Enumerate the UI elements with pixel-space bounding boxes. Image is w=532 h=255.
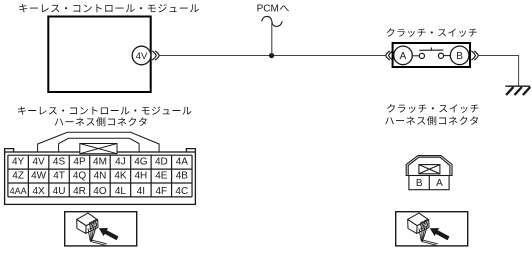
- ground: [505, 86, 530, 95]
- svg-text:4N: 4N: [94, 171, 107, 182]
- svg-text:4D: 4D: [155, 156, 168, 167]
- junction node: [269, 53, 274, 58]
- svg-text:4J: 4J: [115, 156, 126, 167]
- male connector chevrons at 4V: [152, 51, 159, 60]
- svg-text:4T: 4T: [53, 171, 65, 182]
- keyless module connector body: [5, 149, 196, 205]
- svg-text:4R: 4R: [73, 186, 86, 197]
- terminal A: [394, 46, 413, 65]
- svg-text:4W: 4W: [31, 171, 47, 182]
- svg-text:B: B: [416, 178, 423, 189]
- PCMへ label: [257, 4, 289, 15]
- clutch switch harness connector label line 2: [385, 116, 478, 125]
- svg-text:4U: 4U: [53, 186, 66, 197]
- wire junction to PCM: [271, 23, 273, 56]
- svg-text:4K: 4K: [114, 171, 127, 182]
- svg-text:4I: 4I: [137, 186, 145, 197]
- svg-text:4G: 4G: [134, 156, 148, 167]
- svg-text:4P: 4P: [73, 156, 86, 167]
- svg-text:4A: 4A: [176, 156, 189, 167]
- svg-text:4H: 4H: [134, 171, 147, 182]
- svg-text:4Z: 4Z: [12, 171, 24, 182]
- wire 4V to clutch switch: [159, 55, 386, 57]
- keyless module harness connector label line 1: [18, 106, 191, 114]
- clutch switch box: [393, 43, 470, 67]
- svg-text:B: B: [456, 51, 463, 62]
- svg-text:4Y: 4Y: [12, 156, 25, 167]
- keyless control module label: [19, 4, 199, 12]
- PCM off-page symbol: [262, 16, 283, 26]
- switch blade: [419, 47, 443, 50]
- clutch connector latch x-box: [419, 165, 440, 174]
- keyless control module box: [48, 17, 150, 93]
- clutch switch connector body: [406, 156, 452, 190]
- terminal 4V: [132, 46, 151, 65]
- svg-text:4X: 4X: [32, 186, 45, 197]
- svg-text:4S: 4S: [53, 156, 66, 167]
- keyless module harness connector label line 2: [55, 117, 147, 126]
- switch contacts: [419, 53, 443, 58]
- svg-text:A: A: [400, 51, 407, 62]
- female connector chevrons at clutch switch input: [386, 51, 393, 60]
- svg-text:4L: 4L: [115, 186, 127, 197]
- svg-text:4M: 4M: [93, 156, 107, 167]
- svg-text:4AA: 4AA: [10, 186, 27, 196]
- pin labels row 2: [12, 171, 188, 182]
- svg-text:4V: 4V: [136, 51, 148, 62]
- keyless connector view icon: [65, 212, 137, 246]
- pin labels row 1: [12, 156, 188, 167]
- svg-text:4B: 4B: [176, 171, 189, 182]
- svg-text:A: A: [436, 178, 443, 189]
- male connector chevrons at clutch switch output: [471, 51, 478, 60]
- terminal B: [450, 46, 469, 65]
- wire clutch switch to ground: [479, 56, 519, 86]
- svg-text:4F: 4F: [156, 186, 168, 197]
- pin labels row 3: [10, 186, 189, 197]
- svg-text:4O: 4O: [93, 186, 107, 197]
- svg-text:4V: 4V: [32, 156, 45, 167]
- clutch switch label: [387, 28, 477, 37]
- svg-text:4Q: 4Q: [73, 171, 87, 182]
- connector latch: [38, 132, 160, 153]
- svg-text:4C: 4C: [175, 186, 188, 197]
- svg-text:PCM: PCM: [257, 4, 279, 15]
- switch stub wires: [412, 55, 450, 57]
- svg-text:4E: 4E: [155, 171, 168, 182]
- pin grid: [8, 155, 192, 197]
- clutch connector view icon: [396, 212, 468, 246]
- clutch switch harness connector label line 1: [387, 104, 478, 113]
